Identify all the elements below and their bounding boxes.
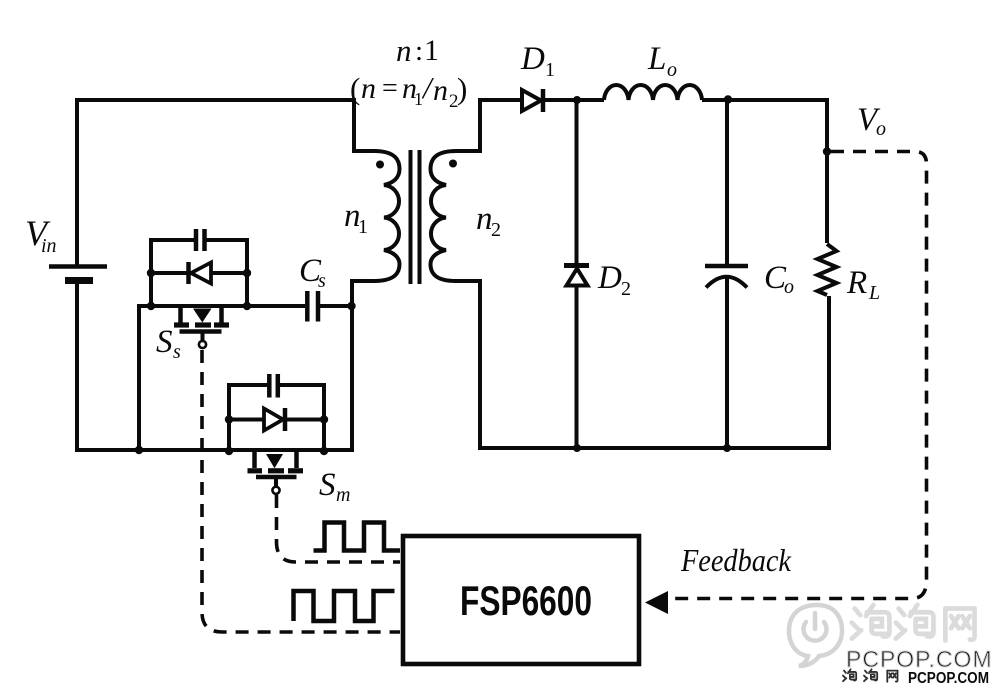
- svg-text:S: S: [156, 324, 173, 360]
- svg-text:1: 1: [358, 216, 368, 238]
- svg-text:m: m: [336, 484, 350, 506]
- svg-text:1: 1: [414, 89, 423, 109]
- svg-text:2: 2: [621, 278, 631, 300]
- svg-text::: :: [415, 35, 423, 67]
- svg-text:1: 1: [424, 34, 439, 67]
- svg-text:in: in: [41, 235, 57, 257]
- svg-text:o: o: [876, 118, 886, 140]
- svg-text:R: R: [846, 265, 867, 301]
- svg-text:): ): [457, 71, 467, 106]
- svg-text:1: 1: [545, 59, 555, 81]
- svg-text:PCPOP.COM: PCPOP.COM: [846, 646, 993, 672]
- svg-text:s: s: [173, 341, 181, 363]
- svg-text:D: D: [520, 41, 545, 77]
- svg-text:(: (: [350, 71, 360, 106]
- svg-text:S: S: [319, 467, 336, 503]
- svg-text:FSP6600: FSP6600: [460, 577, 592, 624]
- svg-text:D: D: [597, 260, 622, 296]
- svg-text:s: s: [318, 270, 326, 292]
- svg-text:2: 2: [491, 219, 501, 241]
- svg-text:o: o: [667, 59, 677, 81]
- svg-text:o: o: [784, 276, 794, 298]
- svg-text:L: L: [647, 41, 666, 77]
- svg-text:n: n: [396, 33, 412, 68]
- svg-text:=: =: [382, 73, 398, 104]
- svg-text:Feedback: Feedback: [680, 542, 792, 578]
- svg-text:PCPOP.COM: PCPOP.COM: [908, 670, 989, 687]
- svg-text:n: n: [433, 74, 448, 107]
- svg-text:L: L: [868, 282, 880, 304]
- svg-text:n: n: [361, 72, 376, 105]
